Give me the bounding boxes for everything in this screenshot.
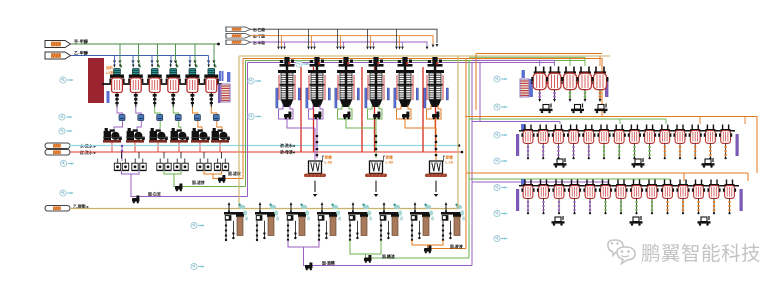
reactor R1-2: [128, 60, 143, 107]
vessel V3-8: [630, 180, 643, 215]
reactor R1-6: [204, 60, 219, 107]
svg-text:出-丁酯: 出-丁酯: [253, 34, 265, 39]
wire green drop 4: [175, 44, 177, 60]
wire green collection left: [164, 171, 246, 187]
cart K3-2: [630, 216, 643, 226]
vessel V2-2: [537, 125, 550, 160]
pump P3-1: [305, 263, 313, 271]
vessel V2-13: [704, 125, 717, 160]
reactor R1-5: [185, 60, 200, 107]
pump PM4: [373, 112, 381, 120]
instrument bubble I12: [494, 104, 508, 110]
instrument bubble I8: [191, 222, 205, 228]
wire tan top header: [239, 55, 610, 57]
vessel V2-14: [719, 125, 732, 160]
pump P2-1: [132, 196, 140, 204]
pump PM5: [402, 112, 410, 120]
centrifuge CF-3: [149, 128, 168, 143]
wire green drop 5: [194, 44, 196, 60]
wire centrifuge CF-2 drain: [134, 142, 136, 152]
column bar row3 right: [740, 189, 743, 211]
wire reactor R1-5 outlet: [192, 107, 202, 131]
wire centrifuge CF-6 drain: [219, 142, 221, 152]
wire filter F-2 feed: [138, 152, 140, 159]
vessel V3-14: [723, 180, 736, 215]
vessel V2-11: [673, 125, 686, 160]
instrument bubble I2: [59, 114, 73, 120]
instrument bubble I15: [494, 184, 508, 190]
vessel V3-5: [583, 180, 596, 215]
wire orange bottom collection: [412, 240, 466, 249]
wire orange product header: [251, 36, 434, 44]
seal pot M4: [368, 105, 383, 119]
wire purple product header: [251, 42, 428, 46]
wire orange header row2: [466, 117, 757, 174]
vessel V1-4: [577, 67, 594, 103]
svg-text:出-乙酯: 出-乙酯: [253, 27, 265, 32]
svg-text:LS剂: LS剂: [106, 70, 114, 75]
valve block row3: [521, 179, 525, 185]
wire mixer M3 vapor drops: [337, 29, 339, 46]
tank TK-3: [425, 161, 447, 177]
filter pair F-6: [214, 159, 228, 171]
wire tan riser right: [457, 56, 459, 209]
pump P3-2: [364, 255, 372, 263]
wire tank TK-1 discharge arrow: [314, 181, 316, 192]
filter pair F-1: [114, 159, 128, 171]
wire purple riser right: [471, 63, 473, 266]
instrument bubble I3: [59, 128, 73, 134]
wire purple riser left: [247, 63, 249, 197]
label tank TK-3: [444, 156, 446, 162]
column bar row3 left: [516, 189, 519, 211]
pump PM2: [314, 112, 322, 120]
wire blue drop 1: [114, 56, 116, 61]
wire reactor R1-2 outlet: [136, 107, 142, 131]
stripper column S-1: [224, 202, 248, 241]
svg-text:鹏翼智能科技: 鹏翼智能科技: [641, 243, 761, 265]
vessel V1-1: [531, 67, 548, 103]
wire mixer M2 vapor drops: [308, 29, 310, 46]
instrument bubble I11: [494, 76, 508, 82]
wire filter F-1 feed: [121, 152, 123, 159]
wire blue drop 4: [170, 56, 172, 61]
pump P3-3: [424, 246, 432, 254]
mixer dryer M6: [424, 57, 449, 108]
wire orange top header: [243, 59, 602, 117]
svg-text:浓-母液◂: 浓-母液◂: [280, 150, 296, 155]
wire blue drop 2: [132, 56, 134, 61]
wire purple drops row1R: [540, 60, 555, 66]
reactor R1-1: [109, 60, 124, 107]
wire row2 interconnect: [519, 130, 735, 132]
svg-text:固-酒糟: 固-酒糟: [322, 261, 335, 266]
wire green bottom collection: [350, 240, 469, 258]
stripper column S-2: [255, 202, 279, 241]
wire reactor R1-4 outlet: [173, 107, 181, 131]
wire centrifuge CF-3 drain: [157, 142, 159, 152]
pump PM1: [284, 112, 292, 120]
cart K2-1: [554, 158, 567, 168]
wire reactor R1-3 outlet: [155, 107, 161, 131]
vessel V2-3: [552, 125, 565, 160]
instrument bubble I13: [494, 132, 508, 138]
wire green drop 6: [213, 44, 215, 60]
instrument bubble I5: [60, 190, 74, 196]
pump PM6: [432, 112, 440, 120]
stripper column S-3: [286, 202, 310, 241]
wire blue drop 6: [208, 56, 210, 61]
vessel V2-4: [567, 125, 580, 160]
centrifuge CF-2: [126, 128, 145, 143]
filter pair F-5: [197, 159, 211, 171]
pump P1-3: [157, 115, 163, 121]
stripper column S-5: [348, 202, 372, 241]
wire orange hopper collection: [405, 119, 436, 160]
mixer dryer M3: [335, 57, 360, 108]
vessel V2-7: [613, 125, 626, 160]
wire mixer M1 vapor drops: [278, 29, 280, 46]
svg-text:加料: 加料: [105, 65, 113, 70]
flag product-1: [226, 27, 250, 32]
wire green header row2: [469, 119, 666, 124]
wire centrifuge CF-1 drain: [111, 142, 113, 152]
pump P1-6: [213, 115, 219, 121]
pump P2-2: [175, 184, 183, 192]
mixer dryer M4: [365, 57, 390, 108]
pump P1-2: [138, 115, 144, 121]
filter pair F-3: [157, 159, 171, 171]
wire mixer M5 vapor drops: [396, 29, 398, 46]
wire green drop 1: [119, 44, 121, 60]
vessel V3-4: [568, 180, 581, 215]
svg-text:出-辛酯: 出-辛酯: [253, 40, 265, 45]
svg-text:固-白泥: 固-白泥: [148, 192, 161, 197]
instrument bubble I16: [494, 210, 508, 216]
wire centrifuge CF-5 drain: [199, 142, 201, 152]
vessel V3-6: [599, 180, 612, 215]
vessel V2-8: [628, 125, 641, 160]
cart K1-1: [540, 104, 553, 114]
vessel V2-12: [689, 125, 702, 160]
vessel V2-9: [643, 125, 656, 160]
flag product-3: [226, 40, 250, 45]
wire green top header: [246, 60, 586, 62]
svg-text:固-废液: 固-废液: [450, 244, 463, 249]
wire reactor R1-6 outlet: [211, 107, 222, 131]
column bar row1R: [605, 79, 608, 98]
watermark logo: [608, 240, 635, 264]
pump P1-5: [194, 115, 200, 121]
wire tank TK-2 discharge arrow: [375, 181, 377, 192]
seal pot M3: [338, 105, 353, 119]
cart K2-2: [632, 158, 645, 168]
centrifuge CF-5: [191, 128, 210, 143]
wire filter F-3 feed: [163, 152, 165, 159]
stripper column S-6: [379, 202, 403, 241]
wire filter F-4 feed: [180, 152, 182, 159]
pump P1-1: [119, 115, 125, 121]
vessel V3-1: [521, 180, 534, 215]
heat exchanger E2: [522, 70, 525, 78]
vessel V3-7: [614, 180, 627, 215]
wire purple top header: [248, 62, 555, 64]
wire reactor interconnect: [102, 83, 222, 85]
wire filter F-6 feed: [221, 152, 223, 159]
wire green drop 2: [138, 44, 140, 60]
centrifuge CF-4: [170, 128, 189, 143]
flag feed-2 (glycol): [45, 52, 71, 59]
seal pot M2: [309, 105, 324, 119]
svg-text:L-09: L-09: [386, 161, 393, 165]
wire row1R interconnect: [531, 82, 608, 84]
wire purple header row3: [472, 182, 608, 184]
stripper column S-7: [410, 202, 434, 241]
wire green hopper collection: [346, 119, 376, 128]
vessel V3-9: [645, 180, 658, 215]
wire green drop 3: [157, 44, 159, 60]
flag feed-1 (methanol): [45, 41, 71, 48]
wire red riser 3: [361, 67, 363, 152]
vessel V2-6: [597, 125, 610, 160]
mixer dryer M1: [276, 57, 301, 108]
wire orange riser left: [242, 59, 244, 179]
instrument bubble I9: [191, 263, 205, 269]
vessel V3-12: [692, 180, 705, 215]
tank TK-2: [365, 161, 387, 177]
wire orange frame row1: [476, 54, 602, 111]
wire red riser 2: [313, 67, 315, 152]
cart K1-2: [571, 104, 584, 114]
wire orange collection left: [204, 171, 243, 179]
vessel V2-10: [658, 125, 671, 160]
wire blue header: [71, 55, 209, 57]
reactor R1-4: [166, 60, 181, 107]
wire red riser 6: [435, 67, 437, 152]
wire filter F-5 feed: [203, 152, 205, 159]
wire blue drop 3: [151, 56, 153, 61]
svg-text:受槽: 受槽: [325, 155, 333, 160]
wire purple header row1R: [472, 59, 555, 61]
vessel V1-5: [592, 67, 609, 103]
stripper column S-8: [441, 202, 465, 241]
wire orange riser right: [465, 59, 467, 249]
wire green header row3: [469, 179, 670, 181]
instrument bubble I4: [60, 160, 74, 166]
instrument bubble I6: [248, 78, 262, 84]
vessel V3-11: [676, 180, 689, 215]
column bar row2 right: [736, 134, 739, 156]
svg-text:固-滤饼: 固-滤饼: [192, 180, 205, 185]
wire mixer M4 vapor drops: [367, 29, 369, 46]
vessel V2-5: [582, 125, 595, 160]
wire red riser 1: [300, 67, 302, 152]
svg-text:受槽: 受槽: [386, 155, 394, 160]
mixer dryer M5: [394, 57, 419, 108]
instrument bubble I1: [60, 77, 74, 83]
seal pot M1: [279, 105, 294, 119]
flag mother-liquor: [45, 150, 70, 156]
seal pot M5: [397, 105, 412, 119]
svg-text:受槽: 受槽: [446, 155, 454, 160]
flag wash-water: [45, 143, 70, 149]
vessel V2-1: [521, 125, 534, 160]
wire tank TK-3 discharge arrow: [435, 181, 437, 192]
wire purple collection left: [122, 171, 248, 197]
filter pair F-2: [132, 159, 146, 171]
vessel V1-3: [562, 67, 579, 103]
cart K3-3: [698, 216, 711, 226]
feed block T-01: [88, 58, 104, 103]
stripper column S-4: [317, 202, 341, 241]
wire red riser 5: [422, 67, 424, 152]
cart K3-1: [552, 216, 565, 226]
flag product-2: [226, 34, 250, 39]
pump P1-4: [175, 115, 181, 121]
wire tan riser left: [238, 56, 240, 209]
vessel V3-3: [552, 180, 565, 215]
wire purple filter feed: [121, 146, 123, 162]
wire green header: [71, 43, 219, 45]
wire tan bottom header: [70, 208, 458, 210]
mixer dryer M2: [306, 57, 331, 108]
svg-text:L-08: L-08: [325, 161, 332, 165]
wire purple header row2: [472, 122, 560, 125]
wire centrifuge CF-4 drain: [178, 142, 180, 152]
instrument bubble I17: [494, 235, 508, 241]
instrument bubble I7: [248, 113, 262, 119]
label tank TK-2: [384, 156, 386, 162]
wire orange drop row1R: [599, 56, 601, 66]
cart K2-3: [702, 158, 715, 168]
wire purple branch row1: [479, 63, 481, 122]
wire purple hopper collection: [287, 119, 315, 160]
wire orange header row3: [466, 173, 748, 181]
pump PM3: [343, 112, 351, 120]
instrument bubble I10: [296, 61, 310, 67]
wire row3 interconnect: [519, 185, 739, 187]
wire green riser right: [468, 61, 470, 259]
centrifuge CF-1: [103, 128, 122, 143]
label tank TK-1: [323, 156, 325, 162]
svg-text:L-10: L-10: [446, 161, 453, 165]
cart K1-3: [595, 104, 608, 114]
vessel V3-10: [661, 180, 674, 215]
column bar row2 left: [516, 134, 519, 156]
reactor R1-3: [147, 60, 162, 107]
heat exchanger E1: [218, 84, 220, 103]
pump P2-3: [218, 175, 226, 183]
filter pair F-4: [174, 159, 188, 171]
wire green header row1R: [469, 57, 585, 66]
wire purple bottom collection: [288, 240, 472, 266]
wire blue drop 5: [189, 56, 191, 61]
seal pot M6: [427, 105, 442, 119]
vessel V3-13: [707, 180, 720, 215]
wire green riser left: [245, 61, 247, 187]
wire black product header: [251, 29, 438, 43]
svg-text:浓-洗水◂: 浓-洗水◂: [280, 143, 296, 148]
wire cyan water line: [69, 145, 459, 147]
centrifuge CF-6: [211, 128, 230, 143]
condenser pipes: [220, 71, 223, 81]
valve block row2: [521, 124, 525, 130]
utility bar: [107, 91, 110, 103]
wire red riser 4: [374, 67, 376, 152]
wire red recycle line: [70, 151, 462, 153]
instrument bubble I14: [494, 158, 508, 164]
tank TK-1: [304, 161, 326, 177]
svg-text:固-糟渣: 固-糟渣: [382, 254, 395, 259]
wire orange drops row2: [700, 117, 745, 125]
vessel V3-2: [537, 180, 550, 215]
flag solvent bottom: [45, 206, 70, 212]
vessel V1-2: [546, 67, 563, 103]
wire reactor R1-1 outlet: [114, 107, 123, 131]
